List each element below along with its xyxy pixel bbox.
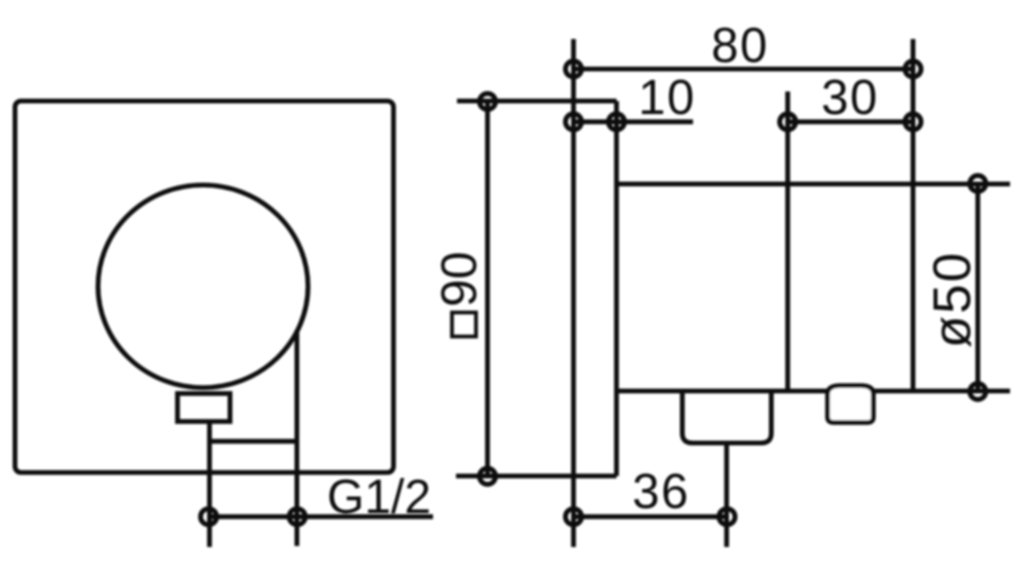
- side view body internal step line: [785, 92, 790, 392]
- wire: side view bottom outlet centerline: [724, 443, 729, 547]
- wire: front view right outlet vertical line: [294, 330, 299, 546]
- dimension 10 line: [574, 119, 694, 124]
- svg-text:G1/2: G1/2: [327, 471, 431, 524]
- node: dimension 30 left marker: [780, 114, 796, 130]
- node: dimension 36 left marker: [566, 509, 582, 525]
- dimension 90 line: [485, 102, 490, 477]
- label square 90: [431, 251, 487, 336]
- front view handle circle: [98, 185, 308, 388]
- node: diameter 50 bottom marker: [970, 384, 986, 400]
- dimension 80 line: [574, 67, 914, 72]
- front view square plate outline: [15, 101, 394, 473]
- node: dimension 10 right marker: [609, 114, 625, 130]
- node: dimension 30 right marker: [905, 114, 921, 130]
- wire: front view left outlet centerline: [207, 422, 212, 548]
- front view handle lever rectangle: [178, 394, 231, 422]
- node: dimension 90 bottom marker: [480, 468, 496, 484]
- node: G1/2 right marker: [289, 509, 305, 525]
- node: dimension 80 left marker: [566, 61, 582, 77]
- side view rear outlet dome: [828, 386, 874, 423]
- side view mounting plate top edge with 90 extension: [457, 99, 617, 104]
- svg-text:90: 90: [431, 251, 487, 307]
- node: G1/2 left marker: [201, 509, 217, 525]
- dimension 30 line: [788, 119, 913, 124]
- node: diameter 50 top marker: [970, 176, 986, 192]
- node: dimension 10 left marker: [566, 114, 582, 130]
- side view mounting plate front face line: [571, 39, 576, 547]
- svg-text:ø50: ø50: [923, 251, 982, 348]
- node: dimension 80 right marker: [905, 61, 921, 77]
- side view bottom outlet: [682, 391, 771, 443]
- side view body bottom edge with diameter 50 extension: [617, 389, 1011, 394]
- dimension 36 line: [574, 514, 728, 519]
- svg-text:36: 36: [632, 465, 690, 519]
- node: dimension 90 top marker: [480, 94, 496, 110]
- svg-text:10: 10: [638, 71, 696, 125]
- side view body top edge with diameter 50 extension: [617, 182, 1011, 187]
- side view body back face line: [911, 39, 916, 391]
- node: dimension 36 right marker: [719, 509, 735, 525]
- dimension G1/2 line: [209, 514, 433, 519]
- side view mounting plate back face line: [614, 101, 619, 476]
- svg-text:30: 30: [821, 71, 879, 125]
- dimension diameter 50 line: [975, 184, 980, 392]
- side view mounting plate bottom edge with 90 extension: [456, 474, 617, 479]
- wire: front view horizontal connector: [210, 439, 297, 444]
- svg-text:80: 80: [711, 19, 769, 73]
